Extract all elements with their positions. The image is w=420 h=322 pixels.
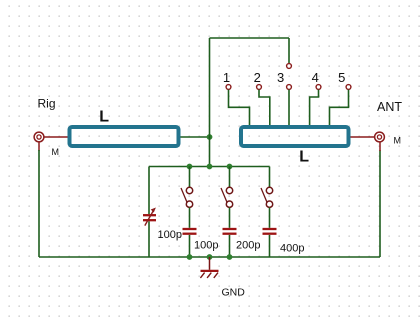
wire S2 to C3 [229, 208, 231, 228]
svg-text:M: M [52, 147, 60, 157]
tap pin 2 circle [257, 85, 262, 90]
wire tap 5 [330, 90, 349, 127]
svg-text:GND: GND [222, 287, 246, 299]
junction node C [207, 164, 213, 170]
wire tap 4 [310, 90, 319, 127]
wire var cap bottom [148, 221, 150, 257]
wire var cap top [148, 167, 150, 215]
wire tap 1 [229, 90, 250, 127]
pin wire L2 to J2 [351, 136, 375, 138]
switch S1 [181, 187, 193, 207]
variable capacitor C1 [143, 208, 156, 226]
connector J1 Rig (M type) [34, 132, 44, 142]
wire S3 to C4 [269, 208, 271, 228]
tap pin 3 circle [287, 85, 292, 90]
junction node F (gnd) [207, 254, 213, 260]
wire tap 3 [288, 90, 290, 127]
inductor L1 [70, 127, 179, 146]
svg-text:ANT: ANT [377, 100, 402, 114]
svg-text:Rig: Rig [38, 97, 56, 111]
junction node D [227, 164, 233, 170]
gnd stub wire [209, 257, 211, 270]
selector end circle [287, 64, 292, 69]
junction node B [187, 164, 193, 170]
tap pin 4 circle [316, 85, 321, 90]
svg-text:M: M [394, 136, 402, 146]
wire C3 bottom [229, 235, 231, 257]
wire tap 2 [259, 90, 270, 127]
wire node A up [209, 38, 211, 137]
pin wire J1 shield down [38, 142, 40, 151]
wire tap selector drop [288, 38, 290, 63]
svg-text:400p: 400p [280, 243, 304, 255]
wire top capacitor rail [149, 166, 270, 168]
switch S3 [261, 187, 273, 207]
svg-text:100p: 100p [194, 240, 218, 252]
connector J2 ANT (M type) [375, 132, 385, 142]
tap pin 5 circle [346, 85, 351, 90]
switch S2 [221, 187, 233, 207]
wire switch S2 top [229, 167, 231, 188]
svg-text:4: 4 [312, 70, 319, 85]
svg-text:5: 5 [338, 70, 345, 85]
wire tap top horizontal [210, 37, 290, 39]
wire switch S1 top [189, 167, 191, 188]
junction node G [227, 254, 233, 260]
svg-text:1: 1 [223, 70, 230, 85]
svg-text:L: L [99, 108, 109, 125]
tap pin 1 circle [226, 85, 231, 90]
inductor L2 [241, 127, 349, 146]
ground symbol [200, 271, 218, 278]
junction node E [187, 254, 193, 260]
capacitor C3 [223, 229, 237, 234]
wire bottom rail [39, 256, 380, 258]
svg-text:200p: 200p [236, 240, 260, 252]
wire C2 bottom [189, 235, 191, 257]
wire S1 to C2 [189, 208, 191, 228]
svg-text:2: 2 [254, 70, 261, 85]
capacitor C2 [183, 229, 197, 234]
wire node A down [209, 137, 211, 167]
node A junction [207, 134, 213, 140]
pin wire J2 shield down [379, 142, 381, 151]
svg-text:L: L [299, 148, 309, 165]
wire switch S3 top [269, 167, 271, 188]
capacitor C4 [263, 229, 277, 234]
wire L1 to node A [181, 136, 210, 138]
wire left vertical [38, 150, 40, 257]
svg-text:100p: 100p [158, 229, 182, 241]
pin wire J1 to L1 [44, 136, 69, 138]
wire right vertical [379, 150, 381, 257]
svg-text:3: 3 [277, 70, 284, 85]
wire C4 bottom [269, 235, 271, 257]
